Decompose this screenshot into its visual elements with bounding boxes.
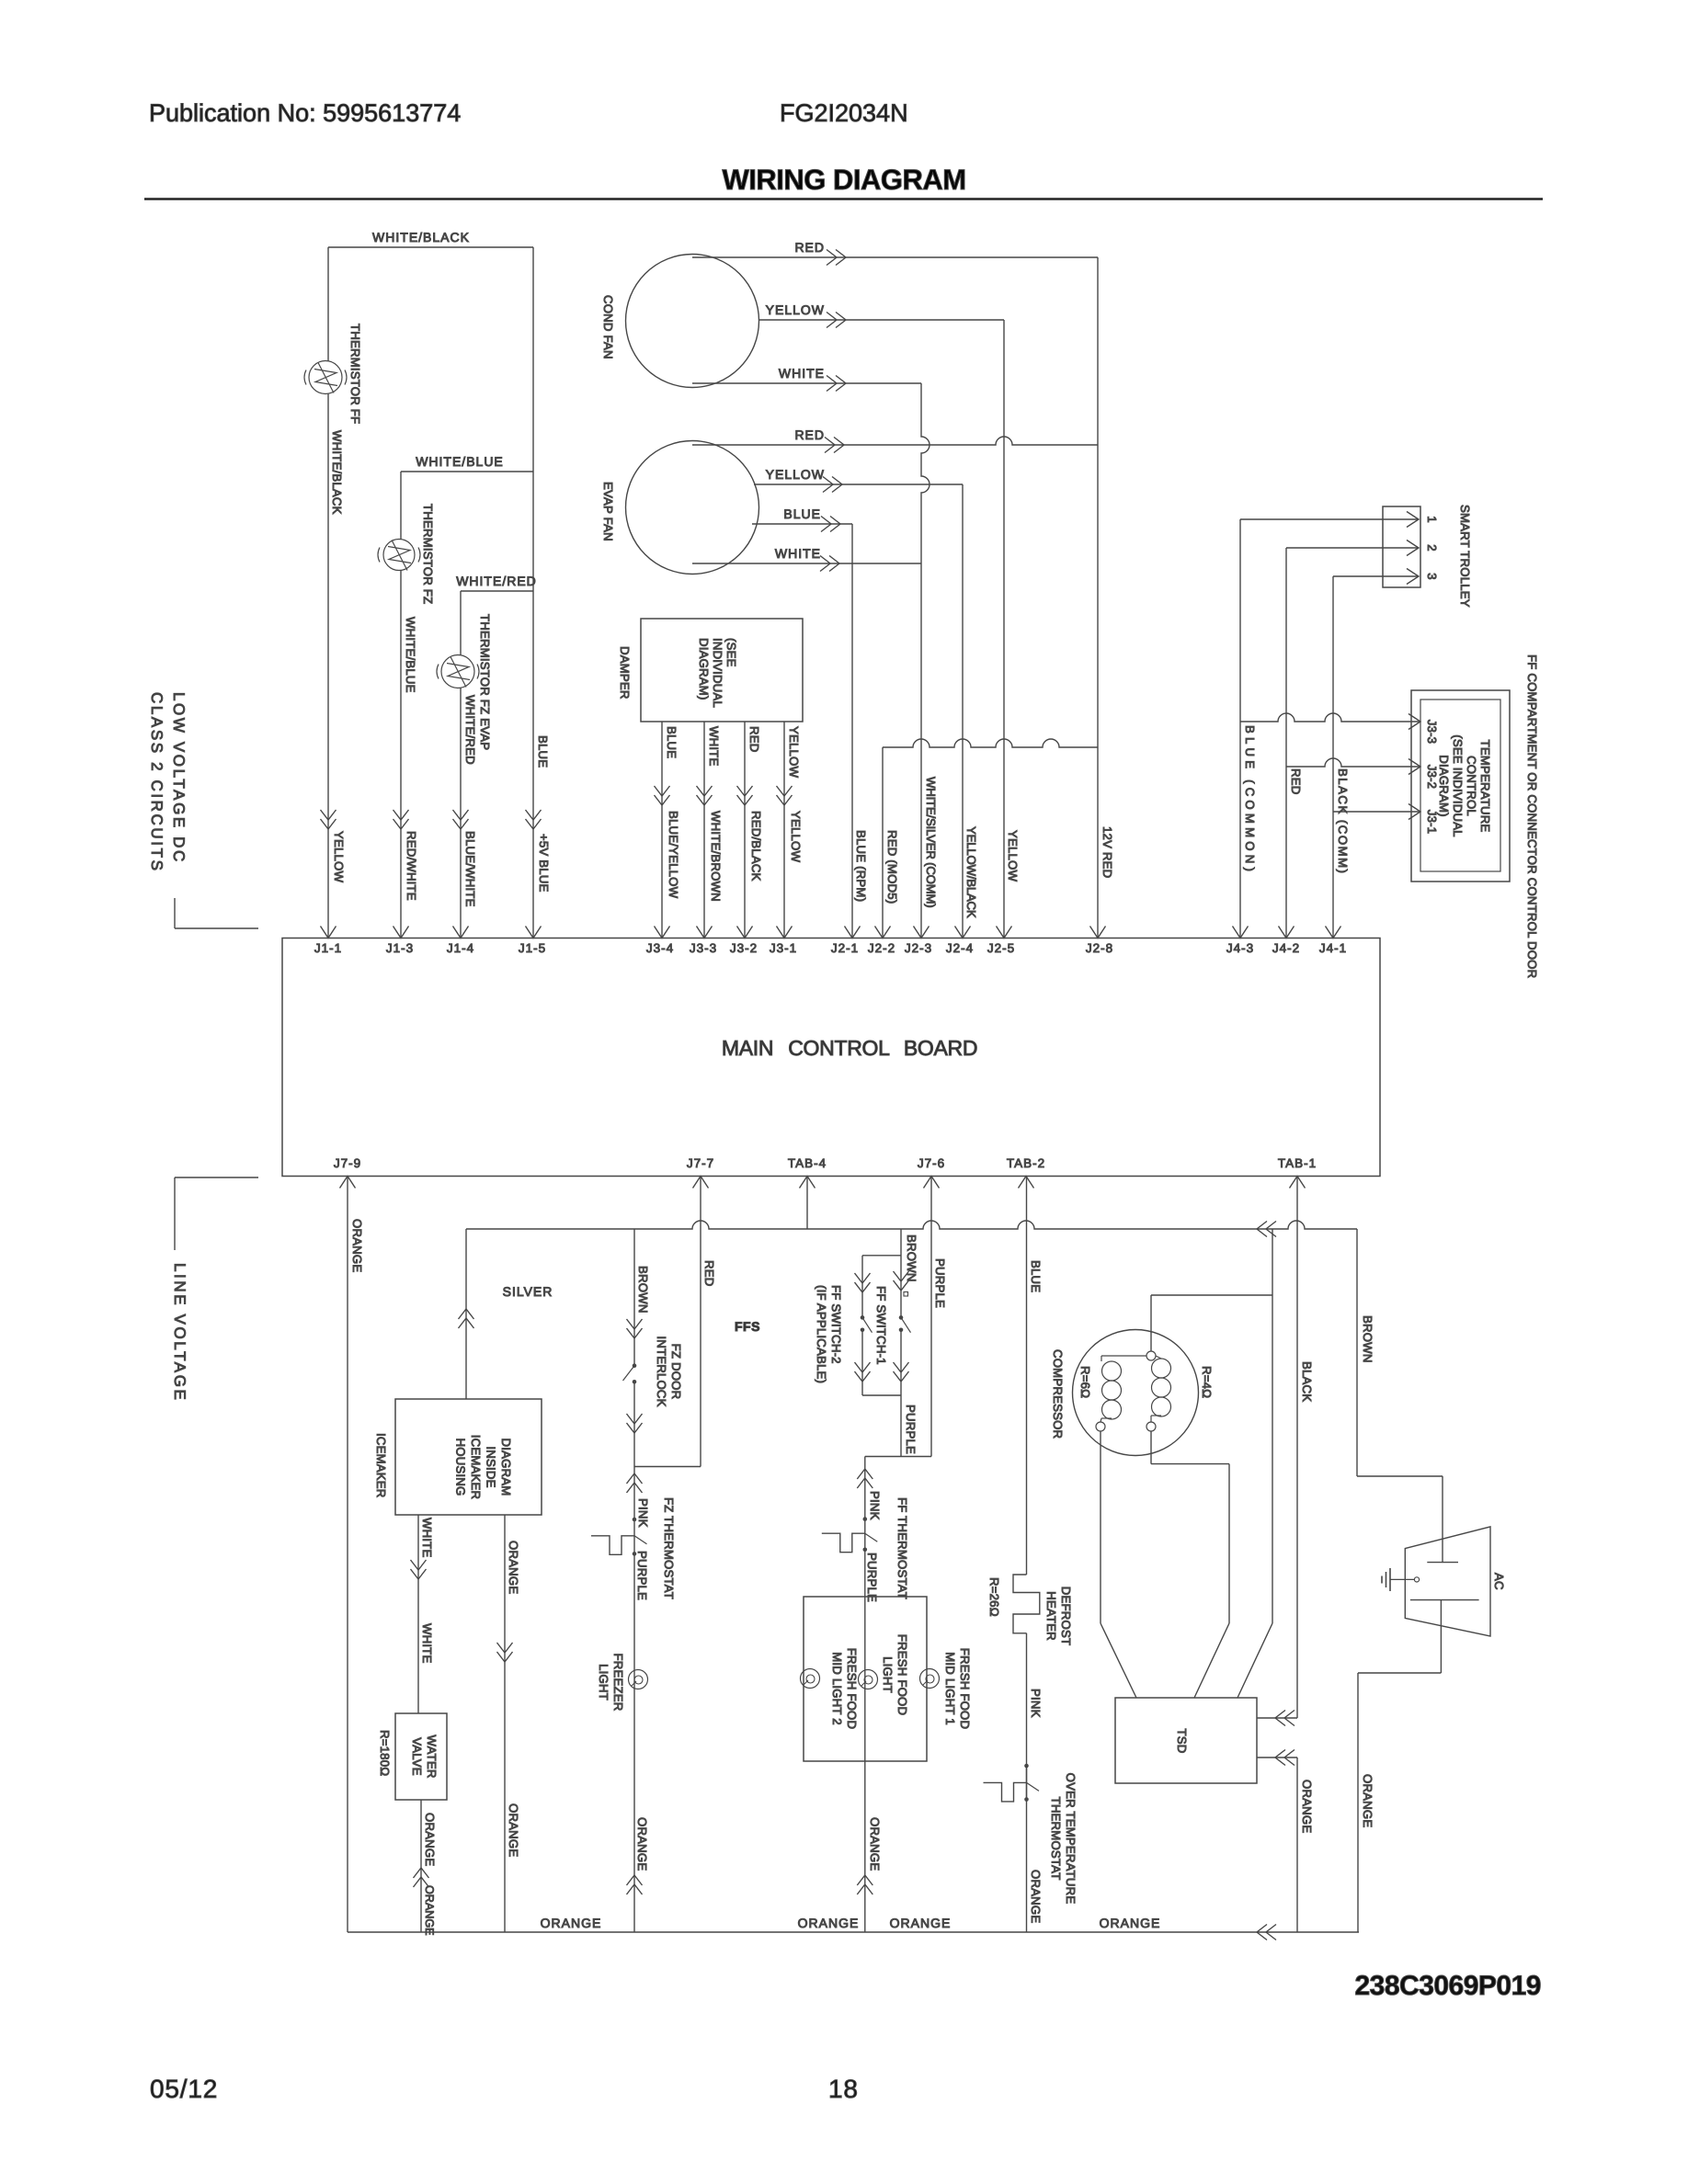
svg-text:05/12: 05/12 (150, 2075, 218, 2103)
svg-text:R=26Ω: R=26Ω (987, 1577, 1001, 1617)
svg-text:TAB-1: TAB-1 (1278, 1156, 1317, 1170)
svg-text:J7-7: J7-7 (687, 1156, 714, 1170)
svg-text:J4-2: J4-2 (1272, 941, 1300, 955)
svg-text:PURPLE: PURPLE (933, 1258, 947, 1308)
svg-text:3: 3 (1425, 573, 1439, 580)
svg-text:DEFROSTHEATER: DEFROSTHEATER (1044, 1587, 1073, 1645)
svg-text:WHITE: WHITE (420, 1518, 434, 1558)
svg-text:FF SWITCH-1: FF SWITCH-1 (874, 1286, 888, 1365)
svg-text:RED: RED (1289, 768, 1303, 794)
svg-text:BLUE: BLUE (783, 506, 821, 521)
svg-text:RED: RED (794, 240, 825, 255)
svg-text:J3-4: J3-4 (646, 941, 674, 955)
svg-text:RED: RED (794, 427, 825, 442)
svg-text:J3-2: J3-2 (1425, 765, 1439, 789)
svg-text:J7-9: J7-9 (334, 1156, 361, 1170)
svg-text:2: 2 (1425, 544, 1439, 552)
svg-text:WHITE: WHITE (420, 1623, 434, 1664)
svg-text:R=4Ω: R=4Ω (1200, 1366, 1214, 1398)
svg-text:RED (MOD5): RED (MOD5) (885, 830, 899, 904)
svg-text:PURPLE: PURPLE (635, 1551, 649, 1600)
svg-text:ORANGE: ORANGE (1100, 1916, 1161, 1930)
svg-text:THERMISTOR FZ: THERMISTOR FZ (421, 504, 435, 604)
svg-text:WHITE: WHITE (775, 546, 821, 561)
svg-text:ORANGE: ORANGE (635, 1817, 649, 1871)
svg-text:BLUE: BLUE (665, 726, 679, 758)
svg-text:BROWN: BROWN (636, 1266, 650, 1314)
svg-text:PURPLE: PURPLE (904, 1405, 918, 1454)
svg-text:ORANGE: ORANGE (541, 1916, 602, 1930)
svg-text:EVAP FAN: EVAP FAN (601, 482, 615, 541)
svg-text:J2-3: J2-3 (905, 941, 932, 955)
svg-text:COMPRESSOR: COMPRESSOR (1051, 1349, 1065, 1439)
svg-text:FRESH FOODMID LIGHT 2: FRESH FOODMID LIGHT 2 (830, 1648, 859, 1729)
svg-text:DAMPER: DAMPER (618, 646, 632, 700)
svg-text:BROWN: BROWN (1361, 1315, 1374, 1363)
svg-text:WHITE/RED: WHITE/RED (463, 695, 477, 765)
svg-text:J2-8: J2-8 (1086, 941, 1113, 955)
svg-text:R=180Ω: R=180Ω (378, 1730, 392, 1776)
svg-text:SILVER: SILVER (503, 1284, 553, 1299)
svg-text:RED/WHITE: RED/WHITE (405, 831, 418, 901)
svg-text:J1-1: J1-1 (314, 941, 342, 955)
svg-text:BLUE/YELLOW: BLUE/YELLOW (667, 811, 680, 899)
svg-text:J1-3: J1-3 (386, 941, 414, 955)
svg-text:FF COMPARTMENT OR CONNECTOR CO: FF COMPARTMENT OR CONNECTOR CONTROL DOOR (1525, 654, 1539, 978)
svg-text:ICEMAKER: ICEMAKER (374, 1433, 388, 1497)
svg-text:COND FAN: COND FAN (601, 295, 615, 359)
svg-text:ORANGE: ORANGE (1300, 1780, 1314, 1833)
svg-text:FZ THERMOSTAT: FZ THERMOSTAT (662, 1497, 676, 1599)
svg-text:ORANGE: ORANGE (1361, 1774, 1374, 1827)
svg-text:WATERVALVE: WATERVALVE (410, 1735, 439, 1778)
svg-text:J3-2: J3-2 (730, 941, 758, 955)
svg-text:ORANGE: ORANGE (1029, 1870, 1043, 1923)
svg-text:+5V BLUE: +5V BLUE (537, 834, 551, 893)
svg-text:ORANGE: ORANGE (507, 1541, 520, 1594)
svg-text:PINK: PINK (868, 1491, 882, 1520)
svg-text:BLUE (COMMON): BLUE (COMMON) (1243, 725, 1257, 875)
svg-text:ORANGE: ORANGE (423, 1813, 437, 1866)
svg-text:LINE VOLTAGE: LINE VOLTAGE (171, 1263, 188, 1403)
svg-text:J2-5: J2-5 (987, 941, 1015, 955)
svg-text:FG2I2034N: FG2I2034N (780, 99, 908, 127)
svg-text:YELLOW: YELLOW (789, 811, 803, 863)
svg-text:DIAGRAMINSIDEICEMAKERHOUSING: DIAGRAMINSIDEICEMAKERHOUSING (454, 1435, 514, 1499)
svg-text:YELLOW: YELLOW (1006, 830, 1020, 882)
svg-text:WHITE: WHITE (779, 366, 825, 381)
svg-text:WHITE/RED: WHITE/RED (456, 574, 537, 588)
svg-text:AC: AC (1492, 1573, 1506, 1590)
svg-text:ORANGE: ORANGE (798, 1916, 860, 1930)
svg-text:PINK: PINK (636, 1498, 650, 1528)
svg-text:J4-1: J4-1 (1319, 941, 1347, 955)
svg-text:BLUE: BLUE (1029, 1260, 1043, 1292)
svg-text:THERMISTOR FF: THERMISTOR FF (348, 324, 362, 424)
svg-text:J2-4: J2-4 (946, 941, 974, 955)
svg-text:BLUE/WHITE: BLUE/WHITE (463, 831, 477, 907)
svg-text:Publication No: 5995613774: Publication No: 5995613774 (149, 99, 461, 127)
svg-text:238C3069P019: 238C3069P019 (1354, 1971, 1541, 2001)
svg-text:SMART TROLLEY: SMART TROLLEY (1458, 505, 1472, 608)
svg-text:ORANGE: ORANGE (868, 1817, 882, 1871)
svg-text:ORANGE: ORANGE (890, 1916, 952, 1930)
svg-text:J1-4: J1-4 (447, 941, 474, 955)
svg-text:J2-1: J2-1 (831, 941, 859, 955)
svg-text:YELLOW: YELLOW (332, 831, 346, 883)
svg-text:BLACK (COMM): BLACK (COMM) (1336, 768, 1350, 874)
svg-text:MAIN CONTROL BOARD: MAIN CONTROL BOARD (722, 1036, 977, 1060)
svg-text:J1-5: J1-5 (519, 941, 546, 955)
svg-text:J2-2: J2-2 (868, 941, 895, 955)
svg-text:RED: RED (702, 1260, 716, 1286)
svg-text:PINK: PINK (1029, 1689, 1043, 1718)
svg-text:RED: RED (747, 726, 761, 752)
svg-text:18: 18 (828, 2075, 859, 2103)
svg-text:1: 1 (1425, 516, 1439, 523)
svg-text:WHITE/BLUE: WHITE/BLUE (404, 617, 417, 693)
svg-text:YELLOW: YELLOW (787, 726, 801, 779)
svg-text:BLUE: BLUE (536, 735, 550, 768)
svg-text:ORANGE: ORANGE (350, 1219, 364, 1272)
svg-text:ORANGE: ORANGE (507, 1803, 520, 1857)
svg-text:J3-1: J3-1 (1425, 810, 1439, 834)
svg-text:PURPLE: PURPLE (865, 1553, 879, 1602)
svg-text:YELLOW: YELLOW (766, 302, 825, 317)
svg-text:J4-3: J4-3 (1226, 941, 1254, 955)
svg-text:TSD: TSD (1175, 1729, 1189, 1754)
svg-text:12V RED: 12V RED (1101, 826, 1114, 878)
svg-text:THERMISTOR FZ EVAP: THERMISTOR FZ EVAP (478, 614, 492, 750)
svg-text:WHITE: WHITE (707, 726, 721, 767)
svg-text:J3-3: J3-3 (690, 941, 717, 955)
svg-text:FF THERMOSTAT: FF THERMOSTAT (895, 1497, 909, 1599)
svg-text:TAB-2: TAB-2 (1007, 1156, 1045, 1170)
svg-text:R=6Ω: R=6Ω (1078, 1366, 1092, 1398)
svg-text:ORANGE: ORANGE (423, 1885, 436, 1936)
svg-text:TAB-4: TAB-4 (788, 1156, 827, 1170)
svg-text:J3-3: J3-3 (1425, 720, 1439, 744)
svg-text:J3-1: J3-1 (770, 941, 797, 955)
svg-text:RED/BLACK: RED/BLACK (749, 811, 763, 882)
svg-text:BLUE (RPM): BLUE (RPM) (854, 830, 868, 902)
svg-text:WHITE/BLACK: WHITE/BLACK (372, 230, 470, 245)
svg-text:WIRING DIAGRAM: WIRING DIAGRAM (722, 164, 965, 196)
svg-text:YELLOW: YELLOW (766, 467, 825, 482)
svg-text:WHITE/BROWN: WHITE/BROWN (709, 811, 723, 902)
svg-text:BLACK: BLACK (1300, 1361, 1314, 1402)
svg-text:FRESH FOODMID LIGHT 1: FRESH FOODMID LIGHT 1 (943, 1648, 972, 1729)
svg-text:WHITE/BLACK: WHITE/BLACK (330, 430, 344, 515)
svg-text:YELLOW/BLACK: YELLOW/BLACK (964, 826, 978, 918)
svg-text:WHITE/BLUE: WHITE/BLUE (416, 454, 504, 469)
svg-text:J7-6: J7-6 (918, 1156, 945, 1170)
svg-text:FZ DOORINTERLOCK: FZ DOORINTERLOCK (655, 1336, 683, 1406)
svg-text:WHITE/SILVER (COMM): WHITE/SILVER (COMM) (924, 777, 938, 907)
svg-text:FFS: FFS (735, 1319, 760, 1334)
